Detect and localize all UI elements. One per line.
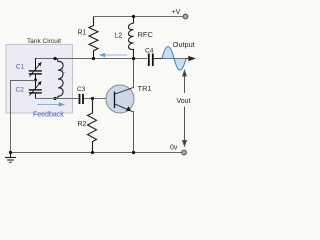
svg-text:C1: C1 — [16, 64, 25, 71]
node dot ground left — [9, 151, 12, 154]
Vout measurement arrow — [183, 71, 187, 147]
node dot R2 bottom — [91, 151, 94, 154]
wire tank bottom to C3 — [36, 98, 79, 100]
wire bottom rail — [11, 152, 183, 154]
svg-text:C2: C2 — [16, 87, 25, 94]
wire midpoint tap to ground rail — [11, 81, 36, 153]
svg-text:R2: R2 — [78, 121, 87, 128]
svg-text:C4: C4 — [145, 47, 154, 54]
svg-text:L2: L2 — [115, 33, 123, 40]
tank circuit box — [6, 45, 73, 114]
resistor R1 — [89, 17, 98, 59]
inductor L — [55, 59, 63, 99]
inductor L2 (RFC) — [128, 17, 133, 59]
wire C3 to base — [84, 98, 115, 100]
svg-text:R1: R1 — [78, 30, 87, 37]
svg-text:+V: +V — [172, 9, 181, 16]
node dot collector/L2 — [132, 57, 135, 60]
svg-text:RFC: RFC — [138, 30, 154, 39]
wire node A (tank top to C4) — [36, 58, 148, 60]
svg-text:Vout: Vout — [177, 98, 191, 105]
node dot L bottom — [53, 97, 56, 100]
feedback arrow (lower, pointing right) — [37, 103, 64, 106]
resistor R2 — [88, 99, 97, 153]
capacitor C4 — [149, 54, 153, 67]
wire emitter lead — [133, 111, 135, 153]
wire collector lead — [133, 59, 135, 89]
feedback direction arrow (upper, pointing left) — [100, 53, 127, 56]
output sine wave — [162, 47, 186, 71]
svg-text:Feedback: Feedback — [33, 112, 64, 119]
node dot R1 bottom — [92, 57, 95, 60]
wire output line with arrow — [154, 57, 195, 61]
wire top rail — [94, 16, 184, 18]
terminal 0v — [182, 150, 187, 155]
node dot C1/C2 midpoint — [34, 79, 37, 82]
svg-text:TR1: TR1 — [138, 84, 152, 93]
transistor TR1 — [106, 85, 134, 113]
node dot base/R2 — [91, 97, 94, 100]
svg-text:C3: C3 — [77, 86, 86, 93]
node dot L top — [53, 57, 56, 60]
terminal +V — [183, 14, 188, 19]
svg-text:Tank Circuit: Tank Circuit — [27, 38, 61, 45]
svg-text:L: L — [62, 68, 66, 75]
node dot emitter bottom — [132, 151, 135, 154]
svg-text:Output: Output — [173, 40, 195, 49]
capacitor C1 (variable) — [29, 58, 42, 80]
node dot L2 top — [132, 15, 135, 18]
capacitor C2 (variable) — [29, 80, 42, 99]
ground — [5, 153, 16, 163]
capacitor C3 — [80, 94, 84, 104]
svg-text:0v: 0v — [170, 145, 178, 152]
